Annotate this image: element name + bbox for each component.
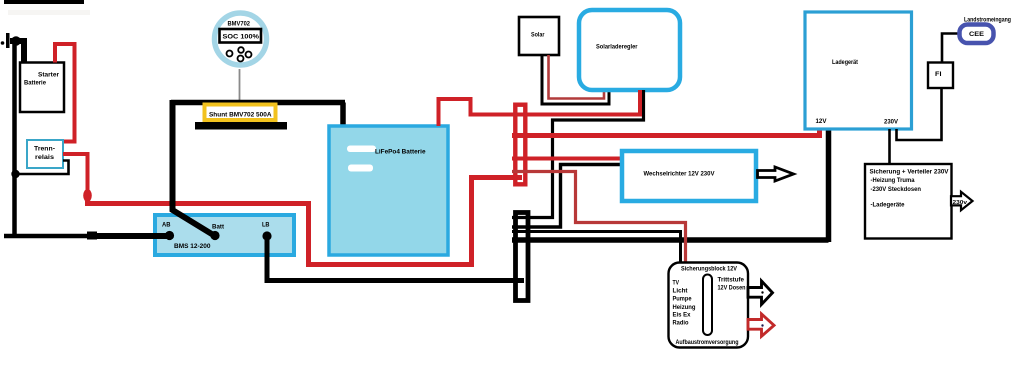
svg-text:Wechselrichter 12V 230V: Wechselrichter 12V 230V — [644, 171, 716, 178]
battery terminal clamp — [1, 41, 5, 45]
busbar black distribution block — [516, 213, 529, 301]
wire thin black Trennrelais to ground run — [16, 161, 69, 175]
svg-text:AB: AB — [162, 223, 171, 229]
svg-text:230v: 230v — [953, 200, 968, 206]
wire joint connector on negative run — [87, 232, 97, 240]
breaker FI — [928, 63, 953, 89]
wire black into AB terminal — [146, 233, 168, 239]
arrow 230v output — [951, 192, 973, 210]
svg-text:relais: relais — [35, 154, 54, 161]
svg-text:Shunt BMV702 500A: Shunt BMV702 500A — [209, 112, 272, 119]
controller Solarladeregler — [579, 10, 680, 90]
wire red busbar to Wechselrichter — [512, 157, 622, 161]
svg-text:Sicherungsblock 12V: Sicherungsblock 12V — [681, 266, 738, 273]
svg-text:TV: TV — [673, 280, 680, 287]
svg-text:-Ladegeräte: -Ladegeräte — [871, 202, 906, 209]
wire black Solar to Solarladeregler — [542, 55, 609, 104]
svg-text:Trenn-: Trenn- — [34, 146, 55, 153]
wire red main positive run — [85, 178, 522, 265]
fuse blob — [83, 189, 92, 202]
wire bottom horizontal to BMS AB — [4, 234, 168, 239]
wire red busbar to Solarladeregler — [512, 90, 640, 115]
battery Starter Batterie — [20, 63, 64, 113]
wire red battery to Trennrelais — [55, 44, 75, 142]
svg-text:LB: LB — [262, 223, 270, 229]
svg-text:12V: 12V — [816, 118, 828, 125]
svg-text:-Heizung Truma: -Heizung Truma — [871, 177, 916, 184]
svg-text:Batterie: Batterie — [24, 80, 46, 87]
wire shunt right drop to LiFePo4 — [340, 103, 346, 127]
wire red LiFePo4 to red busbar — [439, 99, 517, 126]
svg-text:Licht: Licht — [673, 288, 689, 295]
relay Trennrelais — [27, 140, 63, 168]
wire grey gauge to shunt — [239, 69, 241, 103]
svg-text:Heizung: Heizung — [673, 304, 696, 311]
shunt Shunt BMV702 500A — [205, 105, 276, 121]
wire red busbar to Ladegeraet 12V plus — [512, 129, 820, 136]
arrow red 12V output — [748, 314, 774, 336]
svg-text:CEE: CEE — [969, 31, 984, 38]
svg-text:FI: FI — [935, 71, 942, 78]
wire black Ladegeraet 230V to FI — [897, 88, 942, 140]
svg-text:Solar: Solar — [531, 32, 545, 39]
svg-text:Radio: Radio — [673, 320, 689, 327]
connector CEE — [960, 25, 994, 44]
gauge BMV702 — [215, 13, 267, 65]
busbar black block under shunt — [195, 122, 287, 130]
node battery junction — [11, 36, 21, 46]
wire shunt top busbar — [171, 100, 345, 106]
svg-text:Batt: Batt — [212, 225, 224, 231]
svg-text:230V: 230V — [884, 119, 899, 126]
arrow Wechselrichter output — [758, 167, 794, 181]
wire battery to starter box — [10, 41, 27, 63]
svg-text:Pumpe: Pumpe — [673, 296, 692, 303]
svg-text:LiFePo4 Batterie: LiFePo4 Batterie — [375, 149, 426, 156]
svg-text:SOC 100%: SOC 100% — [223, 34, 260, 41]
wire black busbar to Wechselrichter — [512, 165, 622, 228]
node ground junction — [11, 170, 19, 178]
busbar red distribution block — [515, 105, 525, 185]
wire black Solarladeregler to black busbar — [512, 90, 644, 218]
svg-text:Solarladeregler: Solarladeregler — [596, 44, 638, 51]
wire red Trennrelais output — [63, 154, 88, 199]
svg-text:12V Dosen: 12V Dosen — [718, 285, 746, 292]
svg-text:Aufbaustromversorgung: Aufbaustromversorgung — [676, 339, 739, 346]
wire black busbar to Sicherungsblock — [512, 232, 681, 263]
fuse strip pill — [703, 275, 712, 336]
battery LiFePo4 — [329, 126, 448, 255]
svg-text:BMV702: BMV702 — [228, 22, 251, 28]
svg-text:Starter: Starter — [38, 72, 59, 79]
top-left black bar — [4, 0, 84, 4]
fusebox Sicherungsblock 12V — [669, 263, 749, 348]
panel Solar — [519, 17, 559, 55]
wire black thick busbar to Ladegeraet 12V minus — [512, 129, 829, 242]
bms BMS 12-200 — [155, 215, 294, 255]
svg-text:Ladegerät: Ladegerät — [832, 59, 859, 66]
wire red busbar to Sicherungsblock — [512, 172, 686, 263]
wire left vertical ground run — [12, 41, 17, 236]
svg-text:BMS 12-200: BMS 12-200 — [174, 243, 211, 250]
svg-text:Eis Ex: Eis Ex — [673, 312, 691, 319]
svg-text:-230V Steckdosen: -230V Steckdosen — [871, 186, 922, 193]
wire black Ladegeraet 230V to Sicherung Verteiler — [888, 129, 891, 164]
wire black BMS LB to black busbar — [267, 236, 524, 281]
wire black CEE to FI — [942, 34, 960, 63]
arrow black 12V output — [748, 281, 773, 304]
wire shunt left drop over BMS — [173, 100, 216, 236]
box Sicherung + Verteiler 230V — [865, 164, 952, 239]
inverter Wechselrichter 12V 230V — [622, 151, 756, 201]
svg-text:Sicherung + Verteiler 230V: Sicherung + Verteiler 230V — [870, 169, 950, 176]
svg-text:Trittstufe: Trittstufe — [718, 277, 745, 284]
charger Ladegeraet — [805, 12, 912, 129]
wire red Solar to Solarladeregler — [549, 55, 605, 99]
